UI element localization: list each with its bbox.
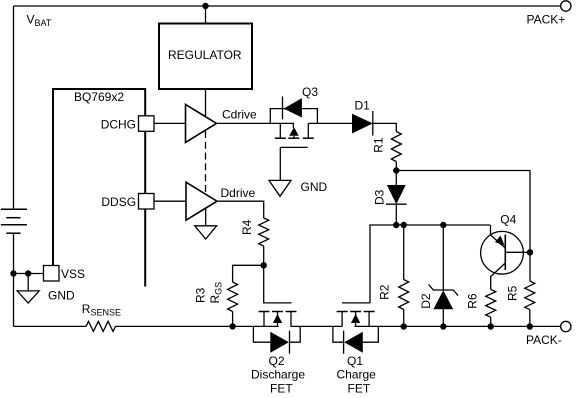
- wire Q3 drain to D1: [308, 122, 352, 124]
- diode Q3 body diode: [284, 98, 302, 117]
- transistor Q1 gate lead: [342, 302, 370, 304]
- battery BT1: [1, 209, 27, 233]
- wire VSS tap: [14, 273, 44, 275]
- wire left rail top: [13, 6, 15, 209]
- wire D2 cathode lead: [442, 225, 444, 290]
- wire R2 top lead: [403, 225, 405, 280]
- diode D3 cathode bar: [386, 203, 407, 205]
- diode Q3 body diode cathode bar: [282, 96, 284, 119]
- node junction dot D2-rail: [440, 323, 446, 329]
- diode Q1 body diode loop right: [363, 326, 379, 342]
- diode D2 zener: [433, 290, 453, 309]
- wire gate bus Q1: [370, 225, 490, 303]
- svg-text:Cdrive: Cdrive: [222, 108, 257, 122]
- wire R5 bottom lead: [529, 310, 531, 327]
- transistor Q4 circle: [481, 231, 524, 274]
- node junction dot R5-rail: [527, 323, 533, 329]
- wire DCHG to buffer: [154, 122, 186, 124]
- wire R1 to D3 junction: [395, 162, 397, 171]
- transistor Q3 body arrow: [289, 127, 299, 136]
- wire dashed Cdrive to Ddrive internal: [205, 131, 207, 207]
- regulator U2 box: [159, 24, 252, 90]
- wire R5 top lead: [529, 252, 531, 281]
- node junction dot D3-bus: [393, 222, 399, 228]
- pin DCHG square: [139, 116, 155, 132]
- node junction dot R4-RGS-gate: [261, 262, 267, 268]
- svg-text:Discharge: Discharge: [251, 368, 305, 382]
- transistor Q2 gate lead: [264, 265, 292, 303]
- diode Q2 body diode loop right: [290, 326, 301, 342]
- svg-text:D1: D1: [355, 99, 371, 113]
- svg-text:R5: R5: [505, 285, 519, 301]
- diode D1 cathode bar: [372, 111, 374, 136]
- svg-text:R4: R4: [240, 219, 254, 235]
- transistor Q1 source tick: [368, 312, 370, 327]
- wire R2 bottom lead: [403, 310, 405, 327]
- svg-text:Q3: Q3: [302, 85, 318, 99]
- IC U1 BQ769x2 outline: [53, 89, 145, 287]
- node PACK- terminal circle: [561, 321, 571, 331]
- svg-text:DCHG: DCHG: [101, 117, 136, 131]
- resistor R2: [399, 280, 409, 310]
- ground symbol Ddrive buffer: [195, 226, 217, 239]
- node junction dot R1-D3: [393, 167, 399, 173]
- svg-text:REGULATOR: REGULATOR: [168, 48, 242, 62]
- svg-text:R6: R6: [466, 293, 480, 309]
- wire junction to Q4 base column: [396, 171, 530, 253]
- svg-text:VSS: VSS: [61, 267, 85, 281]
- wire Q3 gate to ground: [279, 147, 281, 180]
- diode D2 zener bar: [429, 284, 458, 295]
- node junction dot Q4 base: [527, 249, 533, 255]
- node junction dot rail-VSS: [10, 270, 16, 276]
- node PACK+ terminal circle: [561, 1, 571, 11]
- svg-text:Q4: Q4: [500, 212, 516, 226]
- svg-text:D3: D3: [373, 189, 387, 205]
- transistor Q3 drain tick: [307, 123, 309, 138]
- diode D3: [387, 185, 406, 204]
- resistor R4: [259, 218, 269, 246]
- svg-text:FET: FET: [348, 381, 371, 395]
- resistor R6: [486, 289, 496, 317]
- transistor Q1 body tick: [355, 312, 357, 327]
- wire GND stub: [27, 274, 29, 291]
- resistor RSENSE: [86, 321, 116, 331]
- transistor Q2 body tick: [277, 312, 279, 327]
- ground symbol bottom-left: [17, 291, 39, 303]
- svg-text:DDSG: DDSG: [101, 195, 136, 209]
- transistor Q2 channel bars: [259, 311, 297, 313]
- pin DDSG square: [139, 194, 155, 210]
- wire D3 to bus: [395, 204, 397, 225]
- wire RGS bottom lead: [232, 312, 234, 327]
- wire rail Q1 right segment: [354, 325, 560, 327]
- wire D1 to R1: [373, 123, 397, 131]
- buffer U3 Cdrive triangle: [186, 104, 217, 142]
- svg-text:R1: R1: [371, 137, 385, 153]
- node junction dot R2-bus: [401, 222, 407, 228]
- wire bottom rail left: [14, 325, 87, 327]
- resistor R1: [391, 132, 401, 162]
- buffer U4 Ddrive triangle: [186, 182, 217, 220]
- diode Q1 body diode cathode bar: [343, 331, 345, 354]
- node junction dot top rail: [202, 3, 208, 9]
- transistor Q4 collector: [491, 263, 506, 289]
- wire R6 bottom lead: [490, 317, 492, 326]
- svg-text:Charge: Charge: [337, 368, 377, 382]
- wire Ddrive output to R4: [217, 201, 264, 218]
- svg-text:Q1: Q1: [347, 354, 363, 368]
- svg-text:FET: FET: [270, 381, 293, 395]
- transistor Q2 body arrow: [273, 314, 282, 323]
- resistor RGS: [228, 282, 238, 312]
- node junction dot D2-bus: [440, 222, 446, 228]
- transistor Q4 emitter: [491, 225, 506, 248]
- diode Q2 body diode loop left: [253, 326, 270, 342]
- node junction dot R2-rail: [401, 323, 407, 329]
- transistor Q1 channel bars: [337, 311, 375, 313]
- wire top rail to regulator: [205, 6, 207, 24]
- node junction dot R6-rail: [488, 323, 494, 329]
- wire regulator to Cdrive buffer: [205, 89, 207, 118]
- wire D2 anode lead: [442, 309, 444, 326]
- node junction dot GND tap: [25, 270, 31, 276]
- svg-text:GND: GND: [48, 288, 75, 302]
- wire Cdrive output to Q3: [217, 123, 294, 128]
- transistor Q4 emitter arrow: [495, 236, 505, 246]
- wire Ddrive buffer ground stub: [205, 208, 207, 226]
- transistor Q2 source tick: [263, 312, 265, 327]
- transistor Q3 body tick: [293, 136, 295, 139]
- wire bottom rail RSENSE to Q2: [116, 325, 279, 327]
- pin VSS square: [44, 266, 60, 282]
- wire left rail below battery: [13, 233, 15, 326]
- wire top rail VBAT to PACK+: [14, 5, 561, 7]
- node junction dot RGS-rail: [229, 323, 235, 329]
- svg-text:R2: R2: [378, 284, 392, 300]
- diode Q2 body diode cathode bar: [289, 331, 291, 354]
- svg-text:GND: GND: [301, 180, 328, 194]
- transistor Q3 body diode loop: [270, 109, 317, 124]
- transistor Q2 drain tick: [290, 312, 292, 327]
- resistor R5: [525, 281, 535, 310]
- diode Q2 body diode: [270, 332, 289, 353]
- svg-text:BQ769x2: BQ769x2: [74, 90, 124, 104]
- svg-text:Q2: Q2: [269, 354, 285, 368]
- svg-text:PACK-: PACK-: [526, 333, 562, 347]
- diode Q1 body diode: [344, 332, 363, 353]
- diode D1: [352, 114, 373, 134]
- wire R4 to gate junction: [263, 246, 265, 265]
- transistor Q3 gate bar: [280, 146, 307, 148]
- wire D3 anode lead: [395, 171, 397, 186]
- wire rail Q2 drain segment: [291, 325, 343, 327]
- svg-text:Ddrive: Ddrive: [221, 186, 256, 200]
- transistor Q4 base lead: [505, 251, 530, 253]
- wire RGS hook: [233, 265, 264, 282]
- transistor Q3 channel bars: [275, 137, 314, 139]
- svg-text:PACK+: PACK+: [527, 12, 566, 26]
- wire DDSG to buffer: [154, 200, 186, 202]
- ground symbol Q3 gate: [269, 180, 291, 196]
- diode Q1 body diode loop left: [333, 326, 344, 342]
- transistor Q1 drain tick: [341, 312, 343, 327]
- svg-text:R3: R3: [194, 287, 208, 303]
- transistor Q3 source tick: [279, 123, 281, 138]
- transistor Q1 body arrow: [351, 314, 360, 323]
- svg-text:D2: D2: [419, 293, 433, 309]
- transistor Q4 base bar: [504, 235, 506, 271]
